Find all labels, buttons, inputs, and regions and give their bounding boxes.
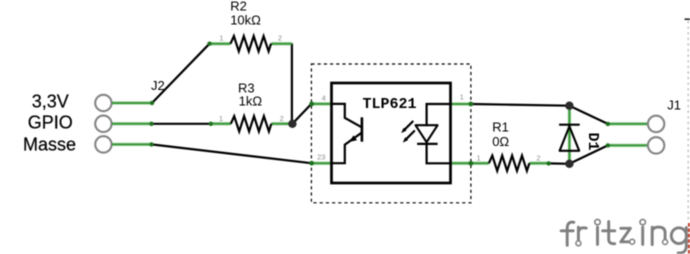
optocoupler U1 LED light arrow 1: [401, 122, 413, 134]
svg-text:1: 1: [219, 34, 223, 43]
wire node C to J1 pin2: [569, 145, 607, 163]
connector J2 pin 1 lead: [112, 102, 152, 104]
svg-text:R1: R1: [492, 119, 509, 134]
optocoupler U1 dashed outline: [311, 64, 471, 203]
page frame red dashed vertical: [688, 223, 690, 254]
diode D1 anode and cathode leads: [568, 106, 570, 164]
svg-text:1kΩ: 1kΩ: [239, 94, 263, 109]
connector J2 pin 2 circle: [95, 116, 111, 132]
node C junction dot: [565, 160, 573, 168]
fritzing logo letter f: [561, 222, 574, 245]
fritzing logo letter r: [578, 227, 586, 241]
wire 3,3V to R2 pin1: [152, 44, 210, 103]
fritzing logo via on r bottom: [576, 241, 581, 246]
svg-text:2: 2: [278, 34, 282, 43]
optocoupler U1 phototransistor emitter path: [332, 133, 362, 163]
wire endpoint dot at R1 pin2: [547, 161, 551, 165]
wire node B to J1 pin1: [569, 106, 607, 124]
svg-text:0Ω: 0Ω: [492, 134, 509, 149]
wire R2 pin2 down to node A: [291, 44, 293, 123]
optocoupler U1 LED light arrow 2: [403, 131, 415, 143]
resistor R1 pin 1 lead: [471, 162, 489, 164]
wire endpoint dot at R3 pin1: [209, 122, 213, 126]
svg-text:1: 1: [219, 114, 223, 123]
fritzing logo letter z: [621, 228, 631, 242]
svg-text:Masse: Masse: [23, 134, 76, 154]
wire endpoint dot at Masse lead: [149, 142, 153, 146]
resistor R2 zigzag: [231, 36, 272, 51]
svg-text:2: 2: [280, 114, 284, 123]
wire endpoint dot at GPIO lead: [149, 122, 153, 126]
optocoupler U1 phototransistor emitter arrow: [349, 135, 357, 142]
connector J1 pin 2 lead: [608, 144, 648, 146]
wire endpoint dot at J1 pin1 lead: [606, 122, 610, 126]
diode D1 cathode bar: [559, 124, 580, 126]
svg-text:2: 2: [536, 153, 540, 162]
wire TLP621 pin1 to node B: [471, 104, 570, 106]
svg-text:10kΩ: 10kΩ: [230, 12, 261, 27]
connector J2 pin 3 lead: [112, 143, 151, 145]
fritzing logo letter t: [603, 222, 615, 244]
wire endpoint dot at U1 pin3: [309, 161, 314, 166]
resistor R2 pin 2 lead: [271, 43, 292, 45]
optocoupler U1 LED triangle: [416, 125, 438, 142]
svg-text:3,3V: 3,3V: [32, 92, 69, 112]
resistor R2 pin 1 lead: [209, 43, 231, 45]
optocoupler U1 pin 1 lead: [451, 103, 471, 105]
fritzing logo letter i (second) stem: [641, 227, 644, 244]
resistor R3 pin 2 lead: [271, 123, 292, 125]
optocoupler U1 pin 4 lead: [311, 103, 331, 105]
wire R1 pin2 to node C: [549, 162, 570, 165]
optocoupler U1 phototransistor base bar: [361, 117, 364, 141]
connector J2 pin 2 lead: [112, 123, 151, 125]
wire endpoint dot at U1 pin4: [309, 102, 314, 107]
fritzing logo via on z end: [630, 239, 635, 244]
resistor R1 zigzag: [489, 156, 530, 171]
page frame gray dashed vertical: [687, 21, 689, 222]
fritzing logo via i dot (first): [595, 219, 600, 224]
wire node A to TLP621 pin4: [292, 104, 311, 124]
optocoupler U1 pin 3 lead: [311, 162, 331, 164]
optocoupler U1 pin 2 lead: [451, 162, 471, 164]
svg-text:1: 1: [477, 153, 481, 162]
fritzing logo via i dot (second): [640, 219, 645, 224]
wire endpoint dot at U1 pin2 / R1 pin1: [469, 161, 474, 166]
connector J2 pin 1 circle: [95, 95, 111, 111]
diode D1 triangle: [560, 126, 580, 150]
wire endpoint dot at U1 pin1: [469, 102, 474, 107]
wire endpoint dot at 3,3V lead: [150, 101, 154, 105]
page frame black dash top right: [685, 18, 690, 20]
wire endpoint dot at J1 pin2 lead: [606, 143, 610, 147]
connector J1 pin 2 circle: [648, 137, 664, 153]
optocoupler U1 LED branch wire: [427, 104, 450, 125]
fritzing logo letter g: [671, 228, 686, 253]
connector J1 pin 1 lead: [608, 123, 648, 125]
svg-text:TLP621: TLP621: [363, 96, 417, 113]
svg-text:23: 23: [317, 153, 325, 162]
optocoupler U1 package rectangle: [332, 83, 451, 183]
svg-text:J1: J1: [667, 97, 681, 112]
node B junction dot: [565, 102, 573, 110]
svg-text:GPIO: GPIO: [28, 112, 73, 132]
node A junction dot: [288, 120, 296, 128]
wire Masse to TLP621 pin3: [152, 144, 312, 163]
fritzing logo letter n: [652, 227, 665, 245]
svg-text:R2: R2: [230, 0, 247, 13]
wire endpoint dot at R2 pin1: [207, 42, 211, 46]
fritzing logo letter i (first) stem: [596, 227, 599, 244]
svg-text:1: 1: [460, 92, 464, 101]
wire GPIO to R3 pin1: [152, 123, 211, 125]
resistor R3 zigzag: [231, 116, 271, 131]
connector J1 pin 1 circle: [648, 116, 664, 132]
resistor R3 pin 1 lead: [211, 123, 231, 125]
svg-text:4: 4: [322, 93, 326, 102]
resistor R1 pin 2 lead: [529, 162, 548, 164]
connector J2 pin 3 circle: [95, 136, 111, 152]
fritzing logo via on n leg: [663, 240, 668, 245]
svg-text:D1: D1: [584, 132, 601, 150]
optocoupler U1 LED cathode bar: [417, 143, 438, 145]
optocoupler U1 phototransistor collector path: [332, 104, 362, 127]
